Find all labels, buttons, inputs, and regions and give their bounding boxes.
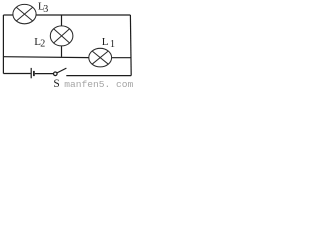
svg-text:L: L <box>102 36 109 48</box>
svg-text:1: 1 <box>110 39 115 50</box>
svg-text:3: 3 <box>43 4 48 15</box>
svg-text:S: S <box>53 78 59 89</box>
svg-text:manfen5. com: manfen5. com <box>64 79 133 89</box>
svg-text:2: 2 <box>40 39 45 50</box>
